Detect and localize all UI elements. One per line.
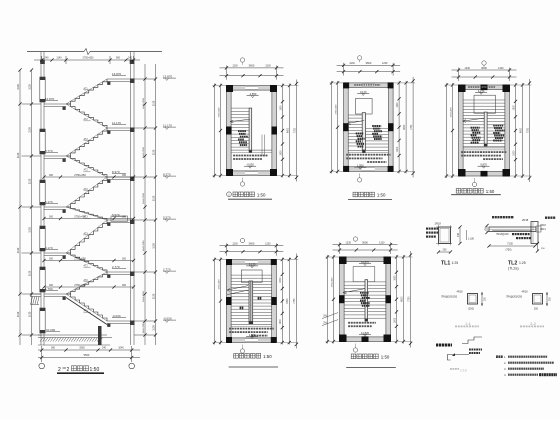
svg-text:3100: 3100 [28,311,31,317]
P2 bottom axis mark [357,178,361,182]
stair flight AT1 [66,294,107,321]
svg-text:16x8=2580: 16x8=2580 [143,97,145,109]
stair flight AT1 [66,79,107,104]
P4 caption [234,354,239,359]
svg-text:7750: 7750 [408,296,410,302]
svg-text:2R14: 2R14 [540,228,546,231]
P5 left dimension chains [333,255,335,344]
svg-text:1:10: 1:10 [460,369,467,373]
svg-text:2.: 2. [504,361,507,365]
plan5 slope leaders [322,313,338,319]
plan2 arrow [347,121,364,124]
P1 top axis mark [240,58,244,62]
svg-text:(250): (250) [468,308,474,311]
svg-text:250: 250 [534,308,539,311]
svg-text:2750+650: 2750+650 [335,104,337,115]
svg-text:6600: 6600 [401,296,403,302]
svg-text:1-1: 1-1 [465,321,472,326]
svg-text:5560: 5560 [84,353,90,357]
svg-text:2750+650: 2750+650 [83,57,94,60]
P5 top dimensions [333,249,398,251]
P3 top axis mark [482,61,486,65]
svg-text:7750: 7750 [527,127,529,133]
svg-text:1230: 1230 [382,62,388,65]
svg-text:2750+650: 2750+650 [218,279,220,290]
stair flight AT2 [66,272,107,294]
axis bubble 1 [39,363,45,369]
svg-text:1230: 1230 [465,67,471,70]
section bottom dimensions [38,349,140,351]
P5 top axis mark [353,237,357,241]
stair plan P5 [322,237,412,368]
svg-text:3100: 3100 [153,243,156,249]
svg-text:3600: 3600 [366,61,372,65]
P4 top dimensions [220,251,284,253]
svg-text:1600: 1600 [394,275,396,281]
plan3 rail [484,112,487,146]
P3 mid wall columns [481,85,488,91]
P1 corner columns [226,85,233,92]
P3 top dimensions [452,76,517,78]
svg-text:900: 900 [116,57,121,60]
svg-text:200: 200 [443,249,448,252]
P2 left dimension chains [337,81,339,173]
svg-text:1:50: 1:50 [263,354,272,359]
svg-text:1:50: 1:50 [257,192,266,197]
stair flight AT2 [66,156,107,177]
svg-text:3100: 3100 [28,178,31,184]
svg-text:300: 300 [49,174,54,177]
P2 caption [353,192,358,197]
svg-text:1600: 1600 [280,277,282,283]
svg-text:3100: 3100 [28,270,31,276]
P1 outer walls [227,86,277,91]
P3 left dimension chains [452,83,454,178]
plan4 treads [231,274,272,276]
left wall window boxes [40,77,45,102]
svg-text:2750+650: 2750+650 [74,173,86,177]
svg-text:360: 360 [51,347,56,350]
svg-text:300: 300 [49,215,54,218]
svg-text:3100: 3100 [28,84,31,90]
detail TL1 [426,222,475,267]
svg-text:7130: 7130 [507,242,513,246]
svg-text:3100: 3100 [17,152,20,158]
P1 top dimensions [220,75,284,77]
plan4 scissor leaders [227,286,248,291]
svg-text:1230: 1230 [346,242,352,245]
svg-text:7750: 7750 [294,298,296,304]
stair flight AT2 [66,128,107,156]
foundation under flight [98,326,102,345]
plan3 landing edges [463,147,505,149]
stair plan P2 [330,56,416,200]
P5 bottom axis mark [353,348,357,352]
svg-text:16x8=2580: 16x8=2580 [143,290,145,302]
svg-text:1.180: 1.180 [468,238,475,241]
plan2 landing annotations [346,154,348,156]
ground hatch [40,338,43,342]
plan3 rebar callouts [471,127,473,129]
plan3 landing annotations [461,151,463,153]
P5 right dimension chains [396,255,398,344]
plan1 treads [231,107,249,109]
P3 outer walls [459,85,510,90]
stair flight AT3 [66,207,107,220]
svg-text:1140: 1140 [56,57,62,60]
svg-text:1600: 1600 [280,150,282,156]
svg-text:1230: 1230 [265,243,271,246]
svg-text:3100: 3100 [28,227,31,233]
right wall [130,52,132,346]
P3 corner columns [458,85,466,93]
svg-text:1:25: 1:25 [452,261,459,265]
svg-text:(750): (750) [505,248,511,252]
svg-text:2R18: 2R18 [540,224,546,227]
svg-text:300: 300 [49,257,54,260]
svg-text:1600: 1600 [513,150,515,156]
svg-text:4R18: 4R18 [522,291,529,294]
right wall landing beams [130,79,135,84]
svg-text:1600: 1600 [397,102,399,108]
stair flight AT2 [66,104,107,128]
svg-text:300: 300 [122,284,127,287]
svg-text:2750+650: 2750+650 [218,107,220,118]
svg-text:2R18: 2R18 [435,222,442,226]
plan1 rail [249,108,252,152]
stair plan P1 [213,58,299,199]
plan3 treads [463,99,505,101]
plan5 rebar callout [360,292,362,294]
roof slab line [27,51,84,53]
interior dimension strings [44,176,134,178]
svg-text:2750+650: 2750+650 [74,256,86,260]
section right dimension chains [144,64,146,345]
plan2 treads left [348,114,362,116]
plan5 well [353,267,375,282]
plan5 rail [365,280,368,321]
plan1 up arrow [230,119,250,122]
section left dimension chains [31,70,33,345]
svg-text:1600: 1600 [280,319,282,325]
svg-text:240: 240 [45,57,50,60]
left landings [44,103,66,105]
stair plan P4 [213,238,299,367]
svg-text:7R18@200: 7R18@200 [496,233,509,236]
P5 outer walls [340,257,391,262]
P3 caption [456,189,461,194]
plan1 leaders [261,135,263,157]
plan2 top wall text [354,84,356,86]
P4 mid wall columns [226,297,232,305]
plan1 annotations [233,155,235,157]
plan2 treads right [366,128,389,130]
svg-text:6600: 6600 [287,127,289,133]
svg-text:16x8=2580: 16x8=2580 [143,240,145,252]
svg-text:3100: 3100 [153,325,156,331]
plan3 well [474,95,495,113]
svg-text:6600: 6600 [520,127,522,133]
svg-text:3600: 3600 [362,241,368,245]
stair section 2-2 [17,49,176,374]
svg-text:7R6@200/250: 7R6@200/250 [506,296,523,299]
svg-text:240: 240 [128,57,133,60]
P1 left dimension chains [220,84,222,178]
svg-text:1230: 1230 [232,243,238,246]
plan3 top wall text [468,86,470,88]
svg-text:300: 300 [122,257,127,260]
left wall [40,52,42,346]
P5 corner columns [339,257,347,265]
stair flight AT2 [66,177,107,207]
P4 top axis mark [240,238,244,242]
plan1 rebar callout [238,130,240,132]
axis bubble 2 [129,363,135,369]
svg-text:3100: 3100 [153,195,156,201]
P2 top dimensions [337,71,401,73]
P2 mid wall columns [343,123,349,131]
svg-text:4R18: 4R18 [457,291,464,294]
svg-text:(TL2a): (TL2a) [508,267,519,271]
P5 caption [351,354,356,359]
railing connection detail [436,337,482,373]
P1 caption [227,192,232,197]
svg-text:1:50: 1:50 [377,193,386,198]
plan1 landing edge [231,149,272,151]
P3 bottom axis mark [472,182,476,186]
svg-text:2750+650: 2750+650 [450,107,452,118]
svg-text:2: 2 [58,367,61,373]
svg-text:1230: 1230 [232,65,238,68]
P2 corner columns [343,82,349,88]
notes [496,355,557,377]
plan4 landing annotations [229,328,231,330]
svg-text:3100: 3100 [153,293,156,299]
svg-text:3100: 3100 [17,311,20,317]
section top dimension [34,59,140,61]
svg-text:1230: 1230 [379,242,385,245]
svg-text:1:50: 1:50 [486,189,495,194]
right landings [107,78,131,80]
svg-text:2750+650: 2750+650 [74,283,86,287]
svg-text:3100: 3100 [153,100,156,106]
svg-text:4.: 4. [504,373,507,377]
svg-text:400: 400 [457,232,460,237]
svg-text:240: 240 [102,347,107,350]
svg-text:6600: 6600 [287,298,289,304]
svg-text:2750+650: 2750+650 [331,277,333,288]
P4 outer walls [227,260,277,265]
plan2 rebar callouts [356,133,358,135]
svg-text:1:50: 1:50 [381,354,390,359]
P1 door openings [245,86,258,90]
section detail 1-1 [441,291,487,328]
svg-text:1230: 1230 [349,62,355,65]
svg-text:3100: 3100 [153,149,156,155]
svg-text:6600: 6600 [404,124,406,130]
entrance slab [30,293,41,295]
plan2 well [356,98,373,114]
P5 mid wall columns [339,295,345,303]
svg-text:TL1: TL1 [441,261,450,267]
plan5 landing annotations [348,322,350,324]
P3 right dimension chains [515,83,517,178]
svg-text:3100: 3100 [17,84,20,90]
P4 corner columns [226,259,232,265]
svg-text:1230: 1230 [265,65,271,68]
P1 right dimension chains [282,84,284,178]
plan2 rail [362,113,365,150]
svg-text:16x8=2580: 16x8=2580 [143,322,145,334]
svg-text:7750: 7750 [411,124,413,130]
svg-text:7R6@200/250: 7R6@200/250 [441,296,458,299]
svg-text:3600: 3600 [481,66,487,70]
bottom flight slab [66,298,107,325]
P1 mid wall columns [226,127,232,135]
svg-text:1600: 1600 [394,317,396,323]
svg-text:1:50: 1:50 [90,367,100,373]
svg-text:3.: 3. [504,367,507,371]
P2 top axis mark [357,56,361,60]
P2 outer walls [344,83,394,88]
svg-text:2560: 2560 [79,347,85,350]
P1 bottom axis mark [240,182,244,186]
section detail 2-2 [506,291,552,328]
svg-text:1.: 1. [504,355,507,359]
svg-text:2R18: 2R18 [522,218,529,222]
P2 door openings [362,83,375,87]
svg-text:1600: 1600 [280,105,282,111]
stair flight AT2 [66,253,107,272]
stair plan P3 [445,61,532,195]
P4 door openings [245,260,258,264]
stair flight AT3 [66,220,107,253]
svg-text:1600: 1600 [397,146,399,152]
svg-text:1600: 1600 [513,105,515,111]
svg-text:2: 2 [67,367,70,373]
P2 right dimension chains [398,81,400,173]
svg-text:16x8=2580: 16x8=2580 [143,146,145,158]
svg-text:2750+650: 2750+650 [74,214,86,218]
P4 right dimension chains [281,258,283,345]
detail TL2 [485,216,555,271]
svg-text:3100: 3100 [17,247,20,253]
plan4 well [241,270,262,282]
ground slab [38,334,107,336]
plan4 landing edges [231,323,272,325]
svg-text:1230: 1230 [498,67,504,70]
plan4 small marks [240,307,242,310]
plan5 arrow [343,289,365,293]
P4 bottom axis mark [240,349,244,353]
svg-text:1:25: 1:25 [519,261,526,265]
svg-text:3600: 3600 [249,64,255,68]
svg-text:3600: 3600 [249,242,255,246]
svg-text:2-2: 2-2 [530,321,537,326]
svg-text:300: 300 [122,215,127,218]
plan5 treads [344,281,386,283]
P4 left dimension chains [220,258,222,345]
svg-text:300: 300 [49,284,54,287]
plan2 landing edges [348,150,388,152]
plan4 rail [249,281,253,324]
svg-text:1040: 1040 [118,347,124,350]
svg-text:3100: 3100 [28,127,31,133]
plan3 arrow [463,118,485,121]
svg-text:300: 300 [122,174,127,177]
svg-text:7750: 7750 [294,127,296,133]
svg-text:16x8=2580: 16x8=2580 [143,192,145,204]
